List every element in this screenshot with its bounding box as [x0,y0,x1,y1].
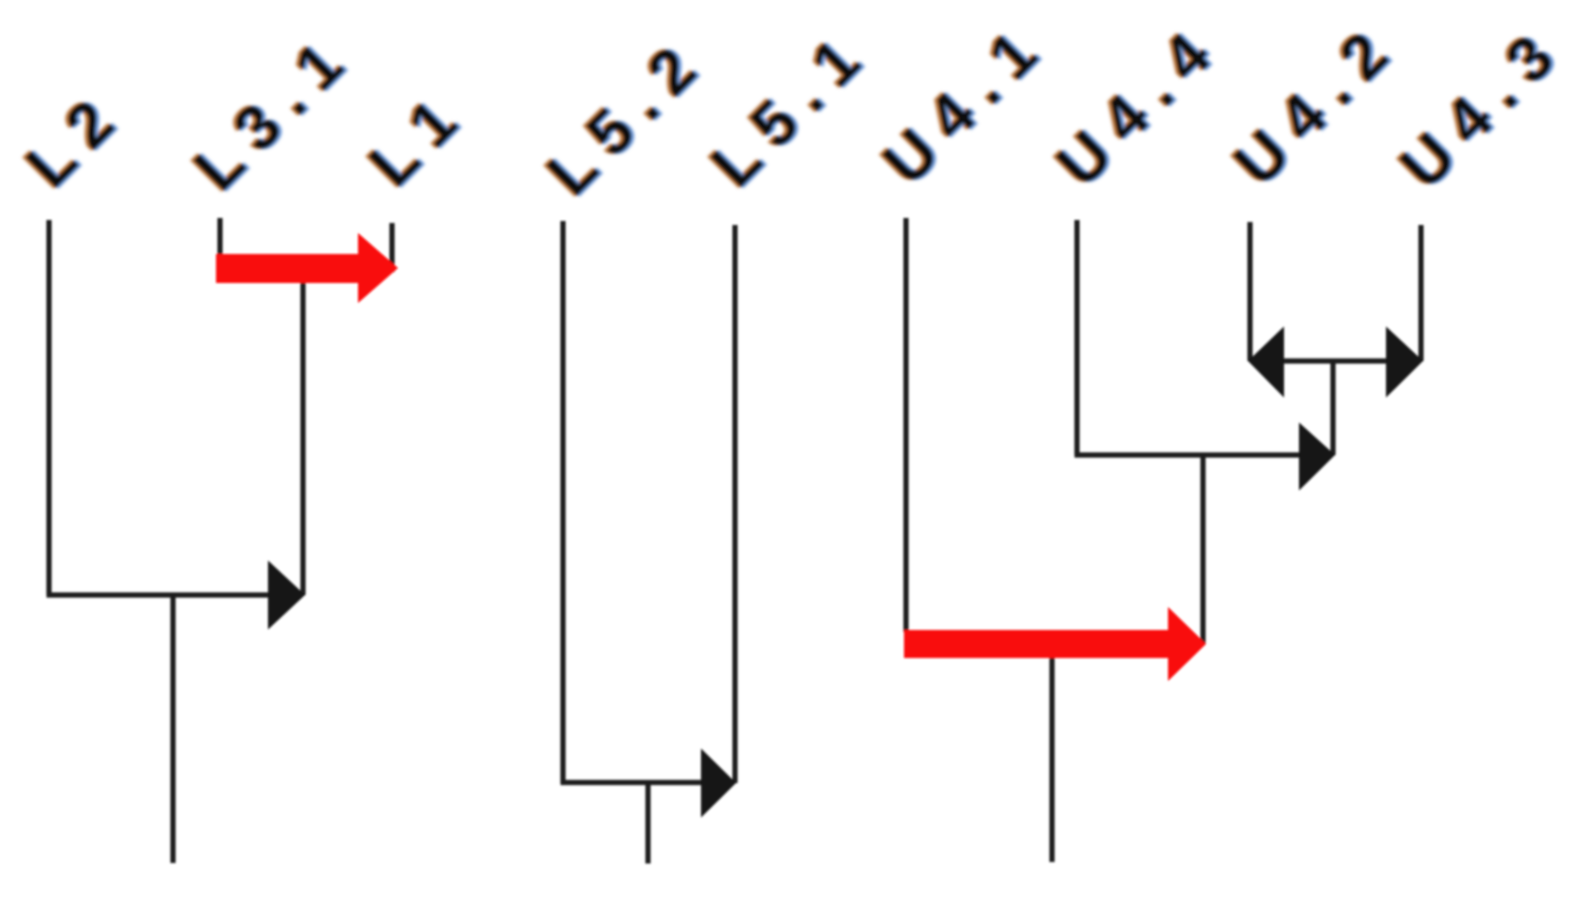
label U4.3 [1385,8,1582,205]
wire connector U4.4+nodeB [1075,452,1303,457]
red arrow 1 (L3.1 to L1) [216,233,398,303]
arrowhead on connector L5 (points right) [701,749,736,818]
arrowhead on connector U4.4 (points right) [1299,423,1335,491]
label L1 [354,72,485,203]
wire node A vertical (from red arrow 1 down to connector) [300,268,305,595]
label U4.2 [1219,5,1416,202]
wire L1 stub [389,223,394,272]
label U4.4 [1041,6,1238,203]
label L5.2 [532,19,724,211]
wire U4.3 stem [1418,225,1423,361]
wire connector L5.2+L5.1 [561,780,705,785]
wire node C vertical (down to red arrow 2) [1200,455,1205,644]
wire node B vertical (below double arrow) [1330,361,1335,455]
arrowhead double-left (points left at U4.2) [1248,327,1284,398]
label L3.1 [179,14,371,206]
wire U4.4 stem [1074,220,1079,455]
label L2 [11,73,142,204]
wire root 1 [170,595,175,863]
wire U4.1 stem [903,218,908,632]
label L5.1 [696,11,888,203]
wire double-arrow connector U4.2+U4.3 [1253,358,1418,363]
wire root 2 [645,783,650,864]
red arrow 2 (U4.1 to node C) [904,607,1206,681]
label U4.1 [868,4,1065,201]
wire L5.1 stem [732,225,737,783]
wire L5.2 stem [560,221,565,783]
arrowhead on connector L2 (points right) [268,561,305,630]
arrowhead double-right (points right at U4.3) [1386,327,1423,398]
wire U4.2 stem [1247,222,1252,361]
wire L3.1 stub [217,218,222,260]
wire connector L2+node [47,592,273,597]
wire L2 stem [46,220,51,595]
wire root 3 [1049,644,1054,862]
